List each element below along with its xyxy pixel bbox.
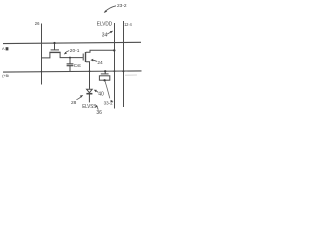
- svg-text:Cst: Cst: [74, 63, 82, 68]
- OLED 28 cathode bar: [86, 93, 92, 95]
- capacitor 33-2 plate: [101, 73, 109, 75]
- junction dot gate node / Cst: [69, 57, 71, 59]
- label 23-2 with leader arrow: [104, 3, 127, 13]
- svg-text:24: 24: [97, 60, 103, 66]
- junction dot drain / ELVDD: [113, 49, 115, 51]
- transistor 24 gate bar: [82, 54, 84, 61]
- svg-text:23-2: 23-2: [117, 3, 127, 9]
- leader line from node to label 33-2: [105, 81, 110, 98]
- faint scan artifact line: [125, 74, 137, 76]
- wire ELVDD line 34: [114, 23, 116, 109]
- junction dot scan2 / right line: [122, 70, 124, 72]
- label 36 with leader arrow: [96, 105, 103, 116]
- transistor 20-1 drain lead / node wire to T2 gate: [60, 52, 83, 57]
- label 40 with leader arrow: [94, 90, 104, 98]
- svg-text:28: 28: [71, 100, 77, 106]
- junction dot box bottom node: [103, 79, 105, 81]
- junction dot scan2 / OLED branch: [89, 70, 91, 72]
- junction dot scan2 / cap tap: [104, 70, 106, 72]
- svg-text:26: 26: [35, 21, 40, 26]
- svg-text:12-4: 12-4: [124, 22, 132, 28]
- transistor 24 channel bar: [85, 52, 87, 62]
- transistor 20-1 channel bar: [49, 51, 60, 53]
- svg-text:36: 36: [96, 110, 102, 116]
- svg-text:34: 34: [102, 32, 108, 38]
- transistor 20-1 gate lead: [54, 43, 56, 50]
- label 34 with arrow: [102, 31, 113, 39]
- label 20-1 with leader arrow: [64, 48, 80, 54]
- label 24 with arrow: [90, 59, 103, 66]
- capacitor Cst bottom lead: [69, 66, 71, 72]
- wire data line 26: [41, 24, 43, 85]
- label 28 with leader arrow: [71, 95, 83, 106]
- transistor 24 source lead down to OLED: [86, 62, 90, 89]
- label 33-2 with arrow to ELVDD line: [104, 100, 114, 106]
- capacitor 33-2 tap lead from scan line 2: [104, 71, 106, 73]
- OLED 28 triangle: [87, 89, 93, 92]
- wire OLED cathode to ELVSS: [88, 94, 90, 102]
- wire right vertical line 12-4: [123, 21, 125, 107]
- transistor 20-1 gate bar: [51, 49, 59, 51]
- component 33-2 box: [99, 76, 109, 80]
- capacitor Cst plate 1: [67, 63, 74, 65]
- svg-text:Λ: Λ: [2, 47, 5, 51]
- svg-text:ELVSS: ELVSS: [82, 104, 96, 110]
- capacitor Cst plate 2: [67, 65, 74, 67]
- transistor 24 drain lead to ELVDD: [86, 50, 115, 52]
- capacitor Cst tap lead: [69, 58, 71, 64]
- svg-text:20-1: 20-1: [70, 48, 80, 54]
- svg-text:(+Bі: (+Bі: [2, 74, 9, 78]
- junction dot scan2 / data line: [41, 71, 42, 72]
- svg-text:40: 40: [98, 92, 104, 98]
- wire scan line 1: [3, 42, 141, 43]
- junction dot scan1/gate 20-1: [53, 42, 55, 44]
- transistor 20-1 source lead to data line: [41, 52, 50, 58]
- wire scan line 2: [3, 71, 142, 72]
- svg-text:ELVDD: ELVDD: [97, 22, 112, 28]
- junction dot scan2 / ELVDD line: [114, 70, 116, 72]
